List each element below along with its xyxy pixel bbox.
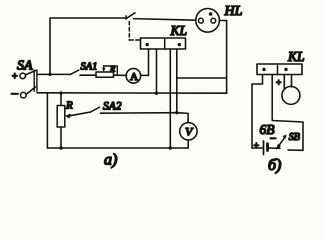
wire rheostat to ammeter xyxy=(114,74,127,76)
svg-text:A: A xyxy=(130,71,138,83)
svg-text:SB: SB xyxy=(289,132,300,143)
wire SA+ to SA1 xyxy=(38,73,71,75)
wire node to voltmeter xyxy=(177,113,188,123)
wire pin 4 tee to HL branch xyxy=(177,77,227,79)
svg-text:HL: HL xyxy=(224,4,243,19)
junction node xyxy=(48,73,51,76)
pin 2 of KL to bus xyxy=(155,49,158,95)
svg-text:R: R xyxy=(109,64,116,74)
pin 3 of KL to bottom wire xyxy=(169,49,172,150)
wire ammeter to coil KL pin 1 xyxy=(141,49,149,75)
svg-text:–: – xyxy=(11,85,19,100)
lamp HL xyxy=(196,8,220,32)
wire SA2 to pin 4 node xyxy=(101,112,177,115)
svg-text:R: R xyxy=(65,100,73,112)
svg-text:SA1: SA1 xyxy=(81,62,98,73)
wire KL middle pin to right wall xyxy=(272,75,303,151)
battery 6V xyxy=(252,122,280,155)
ammeter A xyxy=(126,69,141,84)
wire HL right side down xyxy=(219,21,226,94)
rheostat R (top, with slider) xyxy=(96,64,117,78)
bus wire (SA minus rail) xyxy=(37,92,227,94)
pin 4 of KL xyxy=(175,49,178,114)
switch SA (double pole) xyxy=(11,59,37,101)
svg-text:б): б) xyxy=(268,157,281,174)
wiper arrow from R xyxy=(65,112,91,119)
switch SA2 xyxy=(91,101,122,113)
bell leads xyxy=(284,75,291,90)
wire SA1 to rheostat xyxy=(80,74,96,76)
svg-text:+: + xyxy=(276,79,281,89)
svg-text:+: + xyxy=(12,71,18,82)
contact KL.1 (relay contact, normally open) xyxy=(126,13,135,19)
voltmeter V xyxy=(180,123,197,140)
svg-text:–: – xyxy=(269,132,276,144)
svg-text:+: + xyxy=(254,141,260,152)
svg-text:KL: KL xyxy=(287,49,305,64)
bottom wire xyxy=(47,147,188,149)
svg-text:SA2: SA2 xyxy=(103,101,122,113)
relay coil KL (circuit b) xyxy=(257,64,302,75)
switch SA1 xyxy=(71,62,98,75)
switch SB xyxy=(277,132,300,149)
svg-text:KL: KL xyxy=(170,23,188,38)
dashed mechanical link of contact KL.1 to coil KL xyxy=(129,22,140,41)
resistor R (bottom) xyxy=(57,91,73,149)
svg-text:а): а) xyxy=(104,152,117,169)
wire KL left pin to left wall xyxy=(252,75,263,149)
relay coil KL xyxy=(141,38,186,49)
wire from contact to lamp HL xyxy=(134,19,196,21)
svg-text:SA: SA xyxy=(17,59,33,74)
wire left wall xyxy=(46,93,48,148)
wire top rail left xyxy=(50,18,126,75)
bell (circle) xyxy=(282,86,300,104)
wire voltmeter to bottom wire xyxy=(187,140,189,148)
